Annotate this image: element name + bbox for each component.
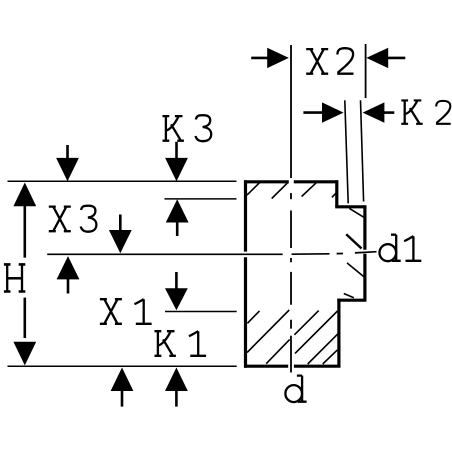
extension line E (bottom face) [8, 365, 237, 367]
arrow X1/K1 upper (down at line D) [165, 272, 188, 310]
hatch tick outlet M2 [346, 234, 361, 248]
body outline bottom edge [244, 365, 341, 368]
hatch tick top band 4 [332, 193, 336, 198]
hatch tick top band 1 [247, 182, 260, 195]
arrow X3 upper (down at line A) [56, 145, 79, 181]
K2 right extension line [361, 100, 364, 201]
hatch bottom band L2 [247, 310, 289, 353]
hatch tick top band 2 [272, 183, 288, 199]
hatch tick outlet chamfer M1 [349, 208, 363, 217]
extension line A (top face) [8, 180, 237, 182]
arrow H top (up at line A) [13, 183, 36, 207]
label d1 [380, 235, 422, 262]
label X3 [49, 206, 97, 232]
label H [4, 264, 25, 291]
label K1 [155, 331, 207, 356]
arrow K3 upper (down at line A) [165, 142, 188, 181]
body outline lower step vertical [337, 299, 340, 367]
extension line C (K3 depth) [165, 198, 237, 200]
arrow X3 lower (up at axis line B) [57, 256, 80, 293]
X2 dimension line right arrow [366, 48, 405, 68]
hatch bottom band R3 [308, 334, 338, 364]
label K3 [163, 115, 212, 141]
body outline notch vertical [335, 180, 338, 207]
label X2 [306, 48, 353, 74]
body outline lower step horizontal [337, 299, 366, 302]
body outline right edge [363, 205, 366, 300]
arrow X1 bottom (up at line E) [111, 368, 134, 407]
horizontal centerline (axis to d1) [47, 252, 376, 255]
hatch bottom band L3 [266, 340, 289, 364]
dimension H vertical line [23, 205, 26, 338]
arrow K3 lower (up at line C) [166, 199, 189, 236]
extension line D (X1/K1 level) [165, 311, 237, 313]
X2 right extension line [365, 44, 367, 98]
arrow K1 bottom (up at line E) [165, 368, 188, 407]
vertical centerline (axis of d) [290, 45, 292, 373]
X2 dimension line left arrow [251, 48, 289, 68]
hatch bottom band R1 [294, 311, 318, 335]
label K2 [401, 100, 450, 123]
K2 dimension line left arrow [303, 102, 343, 122]
hatch bottom band L1 [247, 311, 259, 323]
arrow H bottom (down at line E) [13, 342, 36, 366]
K2 dimension line right arrow [363, 102, 395, 122]
label X1 [100, 299, 152, 324]
body outline left edge [244, 180, 247, 368]
arrow X3 middle (down at axis line B) [109, 215, 132, 254]
hatch bottom band R4 [323, 350, 338, 364]
hatch bottom band R2 [295, 311, 338, 353]
label d [285, 376, 306, 403]
body outline notch horizontal [335, 205, 365, 208]
K2 left extension line [345, 100, 348, 203]
hatch tick outlet M4 [344, 294, 354, 298]
body outline top edge [244, 180, 337, 183]
hatch tick outlet M3 [347, 263, 365, 277]
hatch tick top band 3 [302, 182, 317, 196]
